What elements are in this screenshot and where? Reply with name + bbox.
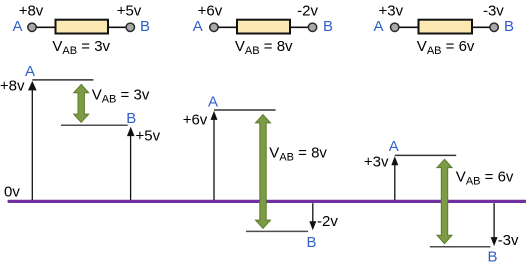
green difference arrow VAB group 2 <box>256 115 271 229</box>
resistor R3 <box>419 20 473 34</box>
svg-text:A: A <box>373 18 383 35</box>
potential arrow -3v group 3 <box>491 203 498 246</box>
wire <box>399 26 418 28</box>
svg-text:+5v: +5v <box>136 127 161 144</box>
level line B group 1 <box>61 124 128 126</box>
potential arrow +5v group 1 <box>127 127 135 200</box>
svg-text:VAB = 8v: VAB = 8v <box>269 144 327 163</box>
terminal node A circuit 2 <box>210 23 218 31</box>
wire <box>472 26 490 28</box>
svg-text:-3v: -3v <box>483 2 504 19</box>
resistor R2 <box>237 20 290 34</box>
svg-text:B: B <box>306 234 316 251</box>
svg-text:0v: 0v <box>4 184 20 201</box>
svg-text:+6v: +6v <box>198 2 223 19</box>
zero volt reference rail (purple) <box>9 200 526 203</box>
svg-text:+8v: +8v <box>0 78 25 95</box>
wire <box>218 26 237 28</box>
potential arrow +8v group 1 <box>28 81 37 200</box>
potential arrow +3v group 3 <box>391 156 398 200</box>
terminal node A circuit 3 <box>391 23 399 31</box>
wire <box>108 26 126 28</box>
svg-text:A: A <box>193 18 203 35</box>
svg-text:+3v: +3v <box>364 154 389 171</box>
svg-text:A: A <box>389 138 399 155</box>
svg-text:-2v: -2v <box>317 213 338 230</box>
level line A group 1 <box>32 79 93 81</box>
svg-text:+3v: +3v <box>378 2 403 19</box>
level line B group 2 <box>246 230 308 232</box>
svg-text:B: B <box>140 18 150 35</box>
potential arrow -2v group 2 <box>309 203 316 230</box>
level line A group 3 <box>395 154 456 156</box>
svg-text:-3v: -3v <box>498 232 519 249</box>
svg-text:B: B <box>323 18 333 35</box>
terminal node B circuit 1 <box>126 23 134 31</box>
wire <box>37 26 56 28</box>
terminal node B circuit 2 <box>308 23 316 31</box>
svg-text:VAB = 6v: VAB = 6v <box>456 168 514 187</box>
resistor R1 <box>56 20 109 34</box>
terminal node B circuit 3 <box>490 23 498 31</box>
svg-text:B: B <box>504 18 514 35</box>
level line B group 3 <box>430 246 491 248</box>
potential arrow +6v group 2 <box>211 111 218 200</box>
svg-text:B: B <box>126 110 136 127</box>
svg-text:B: B <box>487 249 497 266</box>
svg-text:VAB = 6v: VAB = 6v <box>417 38 475 57</box>
green difference arrow VAB group 1 <box>74 84 89 122</box>
wire <box>290 26 308 28</box>
svg-text:A: A <box>25 63 35 80</box>
svg-text:VAB = 3v: VAB = 3v <box>52 38 110 57</box>
svg-text:A: A <box>12 18 22 35</box>
green difference arrow VAB group 3 <box>437 159 452 243</box>
svg-text:A: A <box>208 94 218 111</box>
svg-text:+8v: +8v <box>19 2 44 19</box>
svg-text:+6v: +6v <box>183 112 208 129</box>
svg-text:-2v: -2v <box>297 2 318 19</box>
svg-text:VAB = 8v: VAB = 8v <box>235 38 293 57</box>
svg-text:VAB = 3v: VAB = 3v <box>92 87 150 106</box>
svg-text:+5v: +5v <box>117 2 142 19</box>
terminal node A circuit 1 <box>28 23 36 31</box>
level line A group 2 <box>214 109 276 111</box>
